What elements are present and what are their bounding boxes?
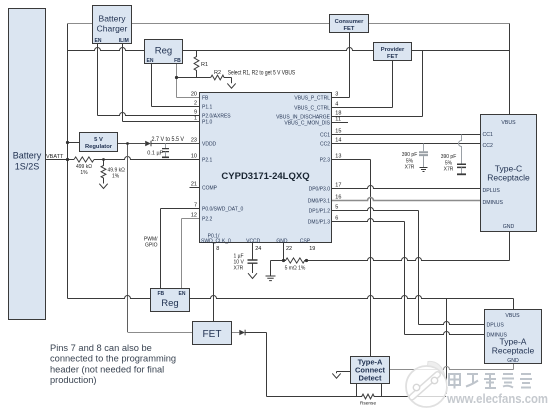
wire FET input row [128, 332, 193, 334]
wire Reg2 rail to Type-A VBUS [68, 296, 514, 310]
wire CC2 row [332, 143, 481, 145]
wire pin 7 to Reg2 FB [161, 209, 200, 289]
svg-text:FB: FB [174, 58, 181, 64]
wire connect detect left ground [332, 372, 350, 379]
svg-text:Receptacle: Receptacle [487, 173, 530, 183]
svg-text:X7R: X7R [234, 266, 244, 272]
wire diode to bottom rail [245, 333, 266, 397]
junction at CSP sense right [305, 259, 308, 262]
IC pin numbers left [191, 92, 197, 219]
svg-text:19: 19 [309, 246, 315, 252]
capacitor C2 390pF on CC1 [441, 135, 466, 175]
svg-text:VBUS: VBUS [505, 313, 520, 319]
svg-text:Battery: Battery [99, 14, 127, 24]
wire Reg EN drop to pin 2 [152, 64, 200, 107]
IC left pin labels [202, 95, 244, 222]
wire pin18 VBUS_IN_DISCHARGE row [332, 116, 423, 118]
svg-text:2.7 V to 5.5 V: 2.7 V to 5.5 V [152, 137, 185, 143]
svg-text:GND: GND [276, 238, 288, 244]
svg-text:5: 5 [335, 205, 338, 211]
svg-text:13: 13 [335, 154, 341, 160]
svg-text:5%: 5% [406, 158, 414, 164]
svg-text:Detect: Detect [359, 374, 382, 383]
svg-text:21: 21 [191, 182, 197, 188]
IC U1 CYPD3171-24LQXQ [200, 93, 332, 243]
svg-text:P2.0/AXRES: P2.0/AXRES [202, 113, 231, 119]
wire Consumer FET to VBUS node [369, 23, 510, 25]
svg-text:Provider: Provider [381, 47, 405, 53]
svg-text:P2.3: P2.3 [320, 157, 331, 163]
svg-text:GND: GND [507, 358, 519, 364]
wire pin 11 stub [332, 122, 349, 124]
ground below pin22 [266, 276, 276, 281]
svg-text:8: 8 [216, 246, 219, 252]
wire battery positive vertical [67, 24, 69, 299]
svg-text:COMP: COMP [202, 185, 218, 191]
svg-text:DPLUS: DPLUS [487, 323, 505, 329]
svg-text:P2.1: P2.1 [202, 158, 213, 164]
capacitor C1 390pF on CC2 [402, 144, 428, 172]
capacitor C3 1uF on VCCD [234, 243, 258, 272]
wire connect detect to Type-A GND [390, 364, 514, 370]
svg-text:FET: FET [387, 54, 398, 60]
junction at GND sense left [282, 259, 285, 262]
IC bottom pin labels [201, 234, 311, 245]
junction at VDDD diode node [126, 142, 129, 145]
resistor R2 [211, 70, 224, 80]
svg-text:4: 4 [335, 102, 338, 108]
svg-text:DP1/P1.2: DP1/P1.2 [309, 208, 331, 214]
svg-text:VBUS: VBUS [501, 120, 516, 126]
svg-text:DM0/P3.1: DM0/P3.1 [308, 198, 330, 204]
battery B1 [9, 9, 46, 320]
svg-text:10: 10 [191, 154, 197, 160]
svg-text:Charger: Charger [97, 24, 128, 34]
svg-text:CC2: CC2 [483, 143, 493, 149]
wire GND pin22 node [271, 243, 284, 276]
svg-text:P2.2: P2.2 [202, 216, 213, 222]
svg-text:20: 20 [191, 92, 197, 98]
svg-text:VBUS_C_MON_DIS: VBUS_C_MON_DIS [284, 121, 330, 127]
wire 5V to FET vertical [127, 144, 129, 333]
svg-text:CC1: CC1 [483, 132, 493, 138]
consumer FET [330, 15, 369, 33]
wire battery rail to Reg input with hops [68, 48, 145, 51]
FET Q1 [193, 322, 232, 345]
svg-text:Consumer: Consumer [335, 19, 364, 25]
svg-text:Pins 7 and 8 can also be: Pins 7 and 8 can also be [50, 343, 152, 353]
svg-text:11: 11 [335, 117, 341, 123]
wire DP0 row to Type-C DPLUS [332, 186, 481, 189]
wire FET output [232, 332, 240, 334]
svg-text:17: 17 [335, 183, 341, 189]
wire Provider FET drop to pin 4 [332, 61, 393, 108]
Type-A receptacle [485, 310, 542, 365]
bottom rail with resistor Rsense [267, 394, 447, 399]
wire battery to charger input [68, 23, 93, 25]
svg-text:Reg: Reg [155, 46, 172, 57]
svg-text:EN: EN [147, 58, 154, 64]
diode D2 [239, 330, 245, 336]
svg-text:X7R: X7R [405, 165, 415, 171]
svg-text:Receptacle: Receptacle [492, 346, 535, 356]
svg-text:VBUS_P_CTRL: VBUS_P_CTRL [294, 95, 330, 101]
svg-text:2: 2 [194, 101, 197, 107]
svg-text:VCCD: VCCD [246, 238, 261, 244]
svg-text:production): production) [50, 375, 97, 385]
Type-C receptacle [481, 115, 537, 232]
svg-text:P1.1: P1.1 [202, 104, 213, 110]
resistor 49.9k [101, 160, 125, 183]
svg-text:SWD_CLK_0: SWD_CLK_0 [201, 238, 231, 244]
svg-text:FET: FET [203, 329, 222, 340]
svg-text:1: 1 [194, 116, 197, 122]
svg-text:DM1/P1.3: DM1/P1.3 [308, 219, 330, 225]
wire charger ILIM drop to pin 1 [123, 44, 200, 122]
svg-text:DMINUS: DMINUS [483, 200, 504, 206]
svg-text:CSP: CSP [300, 238, 311, 244]
svg-text:Rsense: Rsense [360, 401, 377, 407]
svg-text:7: 7 [194, 203, 197, 209]
svg-text:DP0/P3.0: DP0/P3.0 [309, 186, 331, 192]
svg-text:390 pF: 390 pF [402, 152, 418, 158]
svg-text:FET: FET [344, 26, 355, 32]
junction at 5V regulator input [66, 141, 69, 144]
wire CSP rail to Type-C GND [307, 232, 510, 261]
wire pin 12 to Reg2 EN [182, 219, 200, 289]
IC right pin labels [276, 95, 331, 225]
svg-text:5 mΩ 1%: 5 mΩ 1% [285, 266, 306, 272]
junction at VBATT node [66, 158, 69, 161]
resistor 499k [74, 157, 94, 176]
watermark logo [406, 361, 447, 407]
svg-text:Reg: Reg [161, 298, 178, 309]
regulator U3 Reg bottom [151, 289, 190, 312]
wire connect detect bottom pins [357, 384, 382, 397]
regulator U2 Reg [145, 40, 183, 64]
junction at FB node [175, 76, 178, 79]
resistor 5mohm [284, 258, 307, 272]
svg-text:VBATT: VBATT [46, 154, 64, 160]
svg-text:X7R: X7R [444, 167, 454, 173]
wire Reg FB drop to pin 20 [177, 64, 200, 98]
wire discharge tap vertical [422, 51, 424, 117]
capacitor 0.1uF [147, 144, 169, 158]
resistor R1 [194, 51, 208, 78]
svg-text:ILIM: ILIM [119, 38, 129, 44]
wire DP1 row to Type-A DPLUS [332, 208, 485, 325]
svg-text:FB: FB [158, 291, 165, 297]
svg-text:GND: GND [503, 224, 515, 230]
svg-text:EN: EN [95, 38, 102, 44]
svg-text:header (not needed for final: header (not needed for final [50, 364, 164, 374]
diode D1 [145, 141, 151, 147]
wire charger EN drop to pin 9 [98, 44, 200, 116]
svg-text:3: 3 [335, 92, 338, 98]
wire Provider FET to VBUS node [412, 50, 510, 52]
svg-text:Select R1, R2 to get 5 V VBUS: Select R1, R2 to get 5 V VBUS [228, 70, 296, 76]
svg-text:1%: 1% [80, 170, 88, 176]
wire FB node row to R2 and ground [177, 78, 232, 84]
watermark chinese glyphs [449, 373, 532, 389]
svg-text:12: 12 [191, 213, 197, 219]
wire 5V regulator input [68, 142, 80, 144]
svg-text:Regulator: Regulator [85, 144, 113, 150]
wire Reg output rail to Provider FET with hop [183, 48, 374, 51]
IC pin numbers bottom [216, 246, 315, 252]
svg-text:VBUS_C_CTRL: VBUS_C_CTRL [294, 105, 330, 111]
wire DM0 row to Type-C DMINUS [332, 198, 481, 201]
IC pin numbers right [335, 92, 341, 222]
svg-text:www.elecfans.com: www.elecfans.com [446, 392, 548, 406]
battery charger [93, 6, 132, 44]
svg-text:P0.0/SWD_DAT_0: P0.0/SWD_DAT_0 [202, 206, 244, 212]
wire 5V regulator output to VDDD [118, 143, 200, 145]
wire COMP stub [190, 187, 200, 189]
ground arrow at R2 [227, 83, 235, 88]
svg-text:5 V: 5 V [94, 137, 103, 143]
svg-text:23: 23 [191, 138, 197, 144]
svg-text:390 pF: 390 pF [441, 154, 457, 160]
wire charger output to Consumer FET [132, 23, 330, 25]
junction at divider tap [102, 158, 105, 161]
svg-text:0.1 µF: 0.1 µF [147, 151, 163, 157]
wire Consumer FET drop to pin 3 [332, 33, 350, 98]
svg-text:1S/2S: 1S/2S [15, 162, 40, 172]
svg-text:22: 22 [286, 246, 292, 252]
wire pin 8 drop to FET [213, 243, 215, 322]
svg-text:connected to the programming: connected to the programming [50, 354, 176, 364]
svg-text:24: 24 [255, 246, 261, 252]
svg-text:P1.0: P1.0 [202, 120, 213, 126]
svg-text:14: 14 [335, 138, 341, 144]
wire P2.3 to Type-A connect detect [332, 160, 371, 357]
provider FET [374, 43, 412, 61]
svg-text:CC1: CC1 [320, 132, 330, 138]
label PWM GPIO [144, 237, 158, 249]
note pins 7 and 8 [50, 343, 176, 385]
svg-text:CYPD3171-24LQXQ: CYPD3171-24LQXQ [221, 171, 309, 182]
ground arrow below 49.9k [99, 182, 107, 189]
svg-text:FB: FB [202, 95, 209, 101]
svg-text:VDDD: VDDD [202, 141, 217, 147]
ground arrow below C3 [248, 272, 257, 279]
svg-text:R2: R2 [214, 70, 221, 76]
svg-text:15: 15 [335, 129, 341, 135]
wire VBUS branch down to bottom rail [446, 299, 448, 397]
svg-text:5%: 5% [445, 160, 453, 166]
svg-text:EN: EN [179, 291, 186, 297]
wire VBATT row [46, 157, 200, 160]
svg-text:6: 6 [335, 216, 338, 222]
Type-A connect detect [351, 357, 390, 384]
svg-text:GPIO: GPIO [145, 243, 158, 249]
svg-text:R1: R1 [201, 62, 208, 68]
wire VBUS node down to Type-C receptacle [509, 24, 511, 115]
svg-text:CC2: CC2 [320, 141, 330, 147]
5V regulator [80, 133, 118, 152]
svg-text:VBUS_IN_DISCHARGE: VBUS_IN_DISCHARGE [276, 114, 331, 120]
svg-text:1%: 1% [112, 174, 120, 180]
wire DM1 row to Type-A DMINUS [332, 219, 485, 335]
svg-text:16: 16 [335, 195, 341, 201]
svg-text:Battery: Battery [13, 151, 42, 161]
wire CC1 row [332, 134, 481, 136]
svg-text:DPLUS: DPLUS [483, 188, 501, 194]
